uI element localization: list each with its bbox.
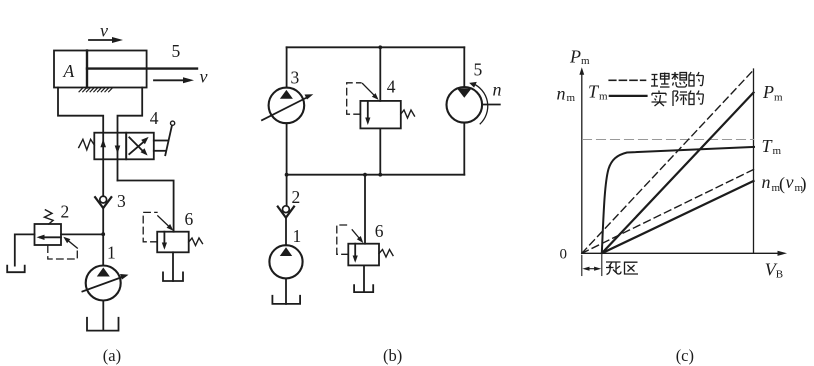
x axis	[582, 252, 780, 254]
svg-text:2: 2	[61, 201, 70, 221]
svg-text:2: 2	[292, 187, 301, 207]
际 (legend line 2)	[673, 91, 688, 106]
svg-text:P: P	[569, 46, 581, 66]
valve 6b pilot (dashed)	[337, 225, 351, 254]
legend solid sample	[610, 95, 647, 97]
死 (dead zone label)	[606, 262, 621, 275]
svg-text:n: n	[762, 172, 771, 192]
dead zone dimension arrows	[586, 268, 599, 270]
想 (legend line 1)	[672, 72, 687, 87]
valve 4 down-arrow in left box	[115, 146, 121, 154]
svg-text:3: 3	[291, 67, 300, 87]
actual Tm curve	[602, 147, 754, 253]
valve 4 crossed arrows in right box	[129, 140, 145, 154]
cylinder 5 body	[54, 51, 147, 88]
pump 3 variable-displacement arrow	[262, 96, 309, 120]
piston rod	[87, 67, 197, 69]
valve 6b body	[348, 244, 379, 266]
svg-text:m: m	[581, 55, 590, 67]
node valve 6b branch	[363, 173, 367, 177]
svg-text:(b): (b)	[383, 346, 402, 365]
svg-text:n: n	[493, 80, 502, 100]
velocity arrow v at rod	[154, 77, 194, 83]
svg-text:4: 4	[387, 77, 396, 97]
tank (pump 1)	[87, 318, 119, 331]
svg-text:4: 4	[150, 108, 159, 128]
velocity arrow v above cylinder	[89, 37, 123, 43]
pump 3	[269, 88, 305, 124]
node at valve 4b tap	[378, 45, 382, 49]
svg-text:m: m	[773, 145, 782, 157]
wire: relief valve 2 outlet to tank	[15, 234, 35, 265]
wire: top line to motor 5	[463, 47, 465, 87]
valve 4 right box	[126, 133, 154, 160]
svg-text:A: A	[63, 61, 75, 81]
valve 4b body	[360, 101, 400, 128]
wire: pump 3 to top line	[286, 47, 288, 87]
motor 5 shaft	[482, 104, 500, 106]
svg-text:m: m	[567, 92, 576, 104]
wire: check valve 2b to pump 1b	[285, 218, 287, 246]
区 (dead zone label)	[625, 262, 639, 274]
svg-text:m: m	[774, 91, 783, 103]
wire: pump 1 to tank	[102, 301, 104, 331]
的 (legend line 1)	[689, 72, 703, 86]
svg-text:5: 5	[172, 41, 181, 61]
wire: valve 4 right port to valve 6	[118, 181, 174, 232]
svg-text:v: v	[200, 66, 208, 86]
relief valve 2 spring (top)	[44, 210, 53, 224]
tank (valve 6b)	[354, 285, 373, 292]
ideal nm dashed line	[582, 170, 754, 254]
wire: top line to valve 4b	[379, 47, 381, 101]
wire: check valve 3 down to pump 1	[102, 208, 104, 266]
svg-text:v: v	[100, 20, 108, 40]
的 (legend line 2)	[689, 91, 703, 105]
actual nm line	[602, 181, 754, 253]
svg-text:5: 5	[474, 59, 483, 79]
legend dashed sample	[609, 79, 645, 81]
pump 1 variable-displacement arrow	[82, 276, 124, 291]
valve 6b internal arrow	[354, 244, 356, 260]
mounting hatching under cylinder	[79, 88, 112, 92]
relief valve 2 flow arrow	[40, 236, 61, 238]
tank (pump 1b)	[272, 296, 300, 304]
wire: bottom line down to valve 6b	[364, 175, 366, 244]
valve 4 up-arrow in left box	[100, 139, 106, 147]
wire: cylinder right port down through valve	[118, 88, 143, 181]
svg-text:1: 1	[293, 226, 302, 246]
wire: pump 1b to tank	[285, 278, 287, 304]
wire: top manifold line	[287, 46, 465, 48]
svg-text:(a): (a)	[103, 346, 121, 365]
ideal Pm dashed line	[582, 70, 754, 253]
motor 5 rotation arc n	[473, 84, 488, 124]
valve 4b spring	[401, 110, 415, 118]
right border line	[753, 69, 755, 253]
valve 6 spring (right)	[189, 238, 203, 246]
svg-text:P: P	[762, 82, 774, 102]
valve 6 pilot line (dashed)	[143, 212, 157, 241]
tank (valve 2 drain)	[7, 266, 25, 273]
wire: cylinder left port down through valve	[58, 88, 103, 197]
valve 6 body	[157, 232, 189, 253]
tank (valve 6)	[163, 272, 183, 281]
wire: valve 4b outlet down	[379, 128, 381, 174]
svg-text:m: m	[599, 91, 608, 103]
pump 1b	[269, 245, 302, 278]
svg-text:1: 1	[107, 243, 116, 263]
actual Pm line	[602, 93, 754, 254]
valve 6 internal arrow	[163, 232, 165, 247]
svg-text:(c): (c)	[676, 346, 694, 365]
svg-text:B: B	[776, 269, 783, 281]
dead zone ticks	[581, 256, 583, 276]
node pump branch	[285, 173, 289, 177]
valve 4 lever (right)	[154, 140, 167, 142]
wire: pump 3 down to bottom line	[286, 123, 288, 175]
node valve 4b outlet	[378, 173, 382, 177]
wire: valve 6b to tank	[363, 265, 365, 292]
piston	[86, 51, 88, 88]
motor 5	[447, 87, 483, 123]
check valve 3	[100, 196, 107, 203]
svg-text:(: (	[779, 174, 785, 195]
svg-text:): )	[801, 174, 807, 195]
理 (legend line 1)	[651, 73, 670, 88]
node junction at relief valve branch	[101, 232, 105, 236]
relief valve 2 body	[35, 224, 62, 245]
wire: bottom manifold line	[287, 174, 465, 176]
valve 4 left box	[94, 133, 126, 160]
wire: motor 5 down to bottom line	[463, 123, 465, 175]
wire: bottom line down to check valve 2b	[286, 175, 288, 206]
svg-text:v: v	[786, 172, 794, 192]
svg-text:n: n	[557, 83, 566, 103]
wire: valve 6 to tank	[172, 252, 174, 281]
relief valve 2 pilot line (dashed)	[48, 246, 78, 259]
valve 6b spring	[379, 250, 393, 258]
pump 1	[86, 266, 121, 301]
svg-text:3: 3	[117, 191, 126, 211]
ideal Tm horizontal dashed line	[583, 139, 754, 141]
valve 4b pilot (dashed)	[347, 83, 361, 114]
y axis	[581, 73, 583, 253]
实 (legend line 2)	[652, 91, 667, 107]
valve 4b internal arrow	[367, 101, 369, 122]
valve 4 spring (left)	[79, 139, 95, 150]
svg-text:6: 6	[185, 209, 194, 229]
svg-text:6: 6	[375, 221, 384, 241]
svg-text:0: 0	[560, 246, 568, 262]
wire: relief valve 2 inlet from main line	[61, 233, 103, 235]
check valve 2b	[283, 206, 290, 213]
